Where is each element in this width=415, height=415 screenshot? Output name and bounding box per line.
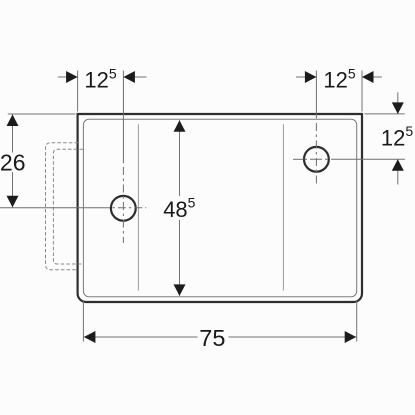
dim top-right 12.5 right arrow — [362, 71, 374, 83]
left tap hole vertical centerline solid part — [122, 71, 124, 164]
dim middle 48.5 label mask — [161, 196, 198, 220]
svg-text:75: 75 — [199, 325, 225, 351]
washbasin inner rim line — [83, 119, 356, 296]
dim top-left 12.5 left arrow — [66, 71, 78, 83]
dim top-left 12.5 right tail — [123, 76, 146, 78]
extension line above left basin edge — [77, 71, 79, 112]
extension line left of basin top edge — [8, 113, 76, 115]
dim left 26 down arrow — [7, 196, 19, 208]
dim left 26 up arrow — [7, 115, 19, 127]
extension line below basin bottom-left — [82, 300, 84, 342]
dim right-side 12.5 down arrow — [392, 102, 404, 114]
dim middle 48.5 line — [179, 120, 181, 296]
dim bottom 75 left arrow — [84, 331, 96, 343]
interior partition line left — [137, 124, 139, 290]
washbasin outer contour — [78, 114, 362, 302]
dim bottom 75 right arrow — [345, 331, 357, 343]
dim top-right 12.5 right tail — [362, 76, 382, 78]
dim right-side 12.5 lower tail — [397, 159, 399, 184]
tap hole circle left — [111, 196, 136, 221]
dim middle 48.5 up arrow — [174, 120, 186, 132]
right tap hole vertical centerline dash-dot part — [315, 123, 317, 186]
hidden trap outline inner (dashed) — [53, 149, 83, 264]
extension line right of basin top edge — [365, 113, 405, 115]
dim right-side 12.5 upper tail — [397, 92, 399, 114]
interior partition line right — [282, 124, 284, 290]
right tap hole horizontal centerline left solid part — [293, 158, 304, 160]
extension line above right basin edge — [361, 71, 363, 112]
dim middle 48.5 down arrow — [174, 284, 186, 296]
dim right-side 12.5 up arrow — [392, 159, 404, 171]
hidden trap outline outer (dashed) — [46, 143, 79, 270]
dim bottom 75 label mask — [198, 328, 229, 347]
dim left 26 line — [12, 114, 14, 208]
dim top-right 12.5 left arrow — [305, 71, 317, 83]
svg-text:26: 26 — [0, 149, 25, 175]
dim bottom 75 line — [83, 336, 356, 338]
right tap hole horizontal centerline dash-dot part — [305, 158, 331, 160]
left tap hole horizontal centerline solid part — [0, 207, 110, 209]
right tap hole horizontal centerline right solid part — [331, 158, 405, 160]
dim top-right 12.5 left tail — [296, 76, 316, 78]
left tap hole horizontal centerline dash-dot part — [112, 207, 146, 209]
dim top-left 12.5 left tail — [58, 76, 78, 78]
dim top-left 12.5 right arrow — [123, 71, 134, 83]
left tap hole vertical centerline dash-dot part — [122, 167, 124, 243]
dim left 26 label mask — [0, 153, 26, 173]
tap hole circle right — [304, 147, 329, 172]
extension line below basin bottom-right — [356, 300, 358, 342]
right tap hole vertical centerline solid part — [315, 71, 317, 119]
